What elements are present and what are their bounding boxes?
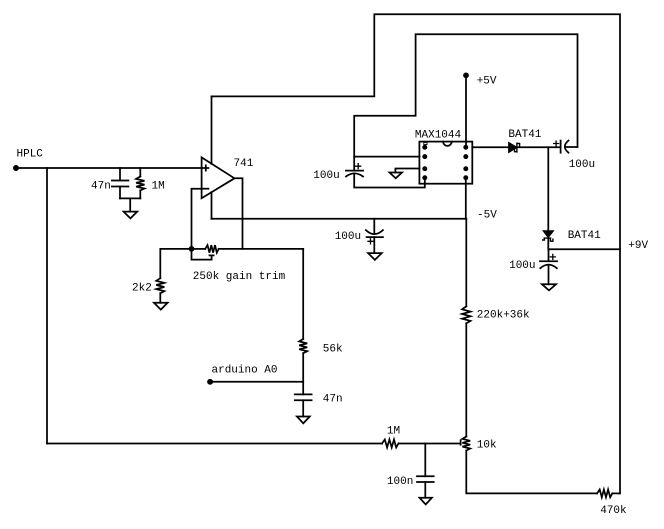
svg-text:-5V: -5V	[477, 210, 497, 222]
svg-text:100u: 100u	[313, 170, 339, 182]
label MAX1044	[415, 129, 462, 141]
wire 10k wiper bar	[460, 440, 462, 444]
wire junction to 250k	[192, 248, 206, 250]
resistor 470k	[597, 490, 612, 498]
wire 10k to bottom	[466, 451, 597, 494]
wire junction to - input	[192, 189, 202, 249]
ground 100n	[420, 498, 432, 505]
diode D1 BAT41	[509, 143, 520, 152]
wire 100n stem	[424, 444, 426, 498]
polarity + pump left cap	[356, 164, 361, 169]
label 10k	[477, 440, 497, 452]
polarity + cap mid	[368, 239, 373, 244]
label 100u pump left	[313, 170, 339, 182]
label 100n	[387, 476, 413, 488]
svg-text:2k2: 2k2	[132, 283, 152, 295]
resistor 2k2	[156, 278, 164, 293]
svg-text:HPLC: HPLC	[17, 149, 44, 161]
op-amp U1 741	[202, 157, 235, 198]
node arduino A0 terminal	[208, 380, 212, 384]
wire pin 3 to earth	[395, 169, 419, 173]
svg-text:100n: 100n	[387, 476, 413, 488]
wire diode1 cathode to cap2	[517, 146, 561, 148]
wire diode2 to +9V rail	[548, 238, 620, 249]
IC MAX1044 body	[419, 142, 472, 184]
wire 470k to +9V rail	[612, 492, 620, 494]
ground mid cap	[368, 253, 382, 260]
wire arduino A0 tap	[210, 381, 303, 383]
svg-text:56k: 56k	[323, 344, 343, 356]
svg-text:10k: 10k	[477, 440, 497, 452]
wire HPLC node down left rail	[46, 168, 48, 444]
svg-text:+9V: +9V	[628, 240, 648, 252]
resistor 1M input	[136, 177, 144, 191]
wire pin 5 down to -5V rail	[465, 178, 467, 219]
wire 1M to 10k wiper	[399, 443, 461, 445]
wire pump output column	[547, 147, 549, 231]
wire +9V top loop	[212, 14, 621, 493]
label 220k+36k	[477, 309, 530, 321]
label 100u top right	[569, 159, 595, 171]
label 1M input	[152, 180, 165, 192]
wire bottom to 1M	[47, 443, 382, 445]
wire +5V to pin 8	[465, 75, 467, 147]
op-amp + input mark	[203, 165, 208, 170]
wire 220k to 10k	[465, 323, 467, 436]
wire op-amp V- pin	[211, 192, 213, 219]
wire pin 4 to cap bottom	[354, 174, 425, 188]
svg-text:1M: 1M	[152, 180, 165, 192]
svg-text:741: 741	[234, 158, 254, 170]
svg-text:47n: 47n	[91, 181, 111, 193]
svg-text:100u: 100u	[509, 260, 535, 272]
diode D2 BAT41	[543, 231, 553, 241]
svg-text:MAX1044: MAX1044	[415, 129, 462, 141]
node feedback junction	[190, 247, 194, 251]
label 47n mid	[323, 394, 343, 406]
wire rail to 220k	[465, 219, 467, 307]
ground input RC	[124, 212, 138, 219]
ground 47n mid	[297, 417, 310, 424]
potentiometer 10k	[462, 437, 470, 451]
resistor 250k gain trim	[205, 245, 219, 253]
label 100u bottom right	[509, 260, 535, 272]
label 47n input	[91, 181, 111, 193]
svg-text:470k: 470k	[600, 505, 627, 517]
label 2k2	[132, 283, 152, 295]
wire op-amp output	[235, 178, 243, 249]
capacitor 47n input	[112, 181, 128, 187]
svg-text:100u: 100u	[335, 231, 361, 243]
IC MAX1044 pin1 mark	[424, 142, 427, 144]
label 741	[234, 158, 254, 170]
label 56k	[323, 344, 343, 356]
label -5V	[477, 210, 497, 222]
svg-text:BAT41: BAT41	[508, 129, 541, 141]
polarity + cap top right	[554, 141, 559, 146]
wire output node down to 56k	[302, 249, 304, 339]
wire mid cap to ground	[373, 237, 375, 253]
capacitor 100u top right	[561, 141, 569, 153]
wire cap3 to ground	[548, 266, 550, 285]
label BAT41 D1	[508, 129, 541, 141]
polarity + cap bottom right	[550, 254, 555, 259]
svg-text:arduino A0: arduino A0	[212, 365, 278, 377]
svg-text:100u: 100u	[569, 159, 595, 171]
wire 56k to 47n	[302, 353, 304, 394]
svg-text:1M: 1M	[387, 426, 400, 438]
IC MAX1044 pin dots	[423, 146, 467, 180]
wire 1M input stems	[139, 168, 141, 198]
node HPLC terminal	[14, 166, 18, 170]
label +5V	[477, 76, 497, 88]
wire 250k to output and 56k	[219, 248, 304, 250]
ground earth arrow pin3	[390, 173, 403, 179]
label 100u mid	[335, 231, 361, 243]
label 250k gain trim	[193, 271, 286, 283]
svg-text:47n: 47n	[323, 394, 343, 406]
capacitor 100u bottom right	[540, 249, 557, 268]
wire pin 8 to diode	[472, 146, 509, 148]
wire charge pump loop	[354, 34, 577, 170]
ground 2k2	[154, 303, 168, 310]
capacitor 100u pump left	[346, 171, 363, 177]
label 470k	[600, 505, 627, 517]
op-amp - input mark	[203, 188, 208, 190]
label 1M bottom	[387, 426, 400, 438]
capacitor 100u mid	[366, 230, 383, 237]
resistor 220k+36k	[462, 306, 470, 323]
wire op-amp V+ pin	[211, 96, 213, 163]
svg-text:BAT41: BAT41	[568, 230, 601, 242]
capacitor 47n mid	[295, 394, 312, 400]
label HPLC	[17, 149, 44, 161]
wire pin 2 to cap	[354, 156, 419, 158]
svg-text:+5V: +5V	[477, 76, 497, 88]
wire 47n cap stem	[119, 168, 121, 198]
wire HPLC input to op-amp +	[16, 167, 202, 169]
capacitor 100n	[417, 476, 434, 482]
wire junction to 2k2	[160, 249, 191, 278]
wire cap2 to inner loop	[566, 146, 578, 148]
resistor 1M bottom	[382, 440, 399, 448]
wire 47n to ground	[302, 400, 304, 416]
wire mid cap stem	[373, 219, 375, 233]
svg-text:250k gain trim: 250k gain trim	[193, 271, 286, 283]
ground cap3	[542, 284, 556, 290]
resistor 56k	[299, 339, 307, 353]
label +9V	[628, 240, 648, 252]
wire 250k wiper tap	[192, 249, 214, 260]
label arduino A0	[212, 365, 278, 377]
wire 2k2 to ground	[159, 293, 161, 303]
svg-text:220k+36k: 220k+36k	[477, 309, 530, 321]
IC MAX1044 notch	[443, 142, 452, 146]
node +5V terminal	[464, 73, 468, 77]
wire -5V rail horizontal	[212, 218, 467, 220]
label BAT41 D2	[568, 230, 601, 242]
wire RC bottom join	[120, 198, 140, 211]
